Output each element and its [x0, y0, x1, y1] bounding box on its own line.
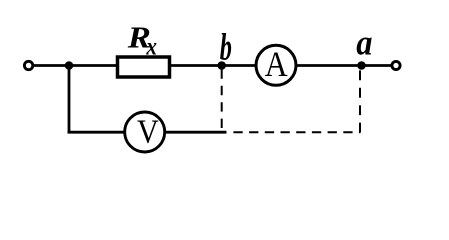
svg-text:a: a	[356, 23, 372, 63]
svg-text:b: b	[220, 26, 232, 68]
svg-text:V: V	[137, 113, 159, 150]
ammeter A (circle)	[256, 45, 296, 85]
node a (junction dot)	[357, 61, 366, 70]
voltmeter V (circle)	[125, 112, 165, 152]
node (left junction dot)	[65, 61, 74, 70]
wire: ammeter to node a	[296, 64, 362, 67]
wire: node b to ammeter	[222, 64, 256, 67]
wire: bottom horizontal to voltmeter	[68, 131, 125, 134]
terminal left (open circle)	[24, 61, 32, 69]
dashed wire: vertical below node a	[359, 70, 361, 132]
wire: voltmeter to junction under b (solid)	[165, 131, 227, 134]
node b (junction dot)	[217, 61, 226, 70]
wire: node to resistor	[69, 64, 117, 67]
wire: left terminal to node	[34, 64, 70, 67]
dashed wire: vertical below node b	[221, 69, 223, 132]
dashed wire: bottom horizontal run to below node a	[233, 131, 360, 133]
resistor Rx (rectangle body)	[118, 57, 170, 77]
wire: resistor to node b	[170, 64, 222, 67]
wire: left vertical drop from node	[68, 66, 71, 134]
wire: node a to right terminal	[362, 64, 392, 67]
svg-text:A: A	[265, 45, 288, 84]
terminal right (open circle)	[392, 61, 400, 69]
svg-text:x: x	[145, 33, 157, 61]
